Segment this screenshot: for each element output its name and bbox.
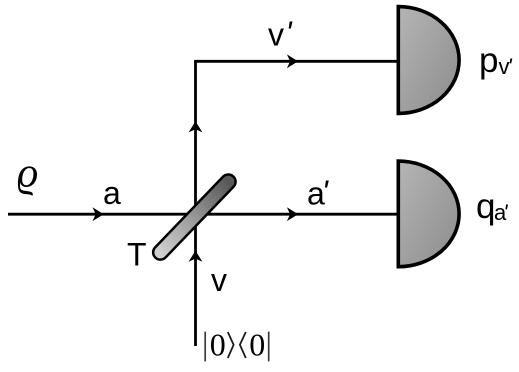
svg-text:0: 0: [249, 327, 265, 363]
svg-text:a': a': [307, 174, 330, 212]
detector q_a' (D-shaped photodetector, bottom): [398, 161, 459, 267]
label: vacuum state |0><0| : left angle bracket: [240, 332, 246, 358]
arrowhead on output wire a' (pointing right): [287, 207, 298, 221]
arrowhead on wire v' (pointing right): [287, 54, 298, 68]
arrowhead on input wire a (pointing right): [93, 207, 104, 221]
wire: output mode v' (corner to top detector): [194, 60, 397, 63]
svg-text:qa': qa': [476, 187, 508, 226]
svg-text:v': v': [268, 15, 294, 53]
detector p_v' (D-shaped photodetector, top): [398, 7, 459, 114]
wire: vacuum mode v (vertical): [194, 61, 197, 346]
label: vacuum state |0><0| : left bar: [204, 332, 206, 362]
svg-text:v: v: [211, 262, 227, 298]
label: vacuum state |0><0| : right angle bracket: [228, 332, 234, 358]
svg-text:0: 0: [210, 327, 226, 363]
beam splitter T (tilted capsule, outline): [160, 182, 228, 253]
arrowhead on vertical wire below beam splitter (pointing up): [189, 251, 203, 262]
label: vacuum state |0><0| : right bar: [268, 332, 270, 362]
svg-text:T: T: [127, 237, 147, 273]
beam splitter T (gradient body): [160, 182, 228, 253]
wire: input mode a (horizontal from rho to detector q): [8, 213, 397, 216]
svg-text:a: a: [103, 175, 121, 211]
arrowhead on vertical wire above beam splitter (pointing up): [189, 121, 203, 132]
svg-text:pv': pv': [479, 41, 512, 80]
svg-text:ϱ: ϱ: [17, 151, 38, 197]
